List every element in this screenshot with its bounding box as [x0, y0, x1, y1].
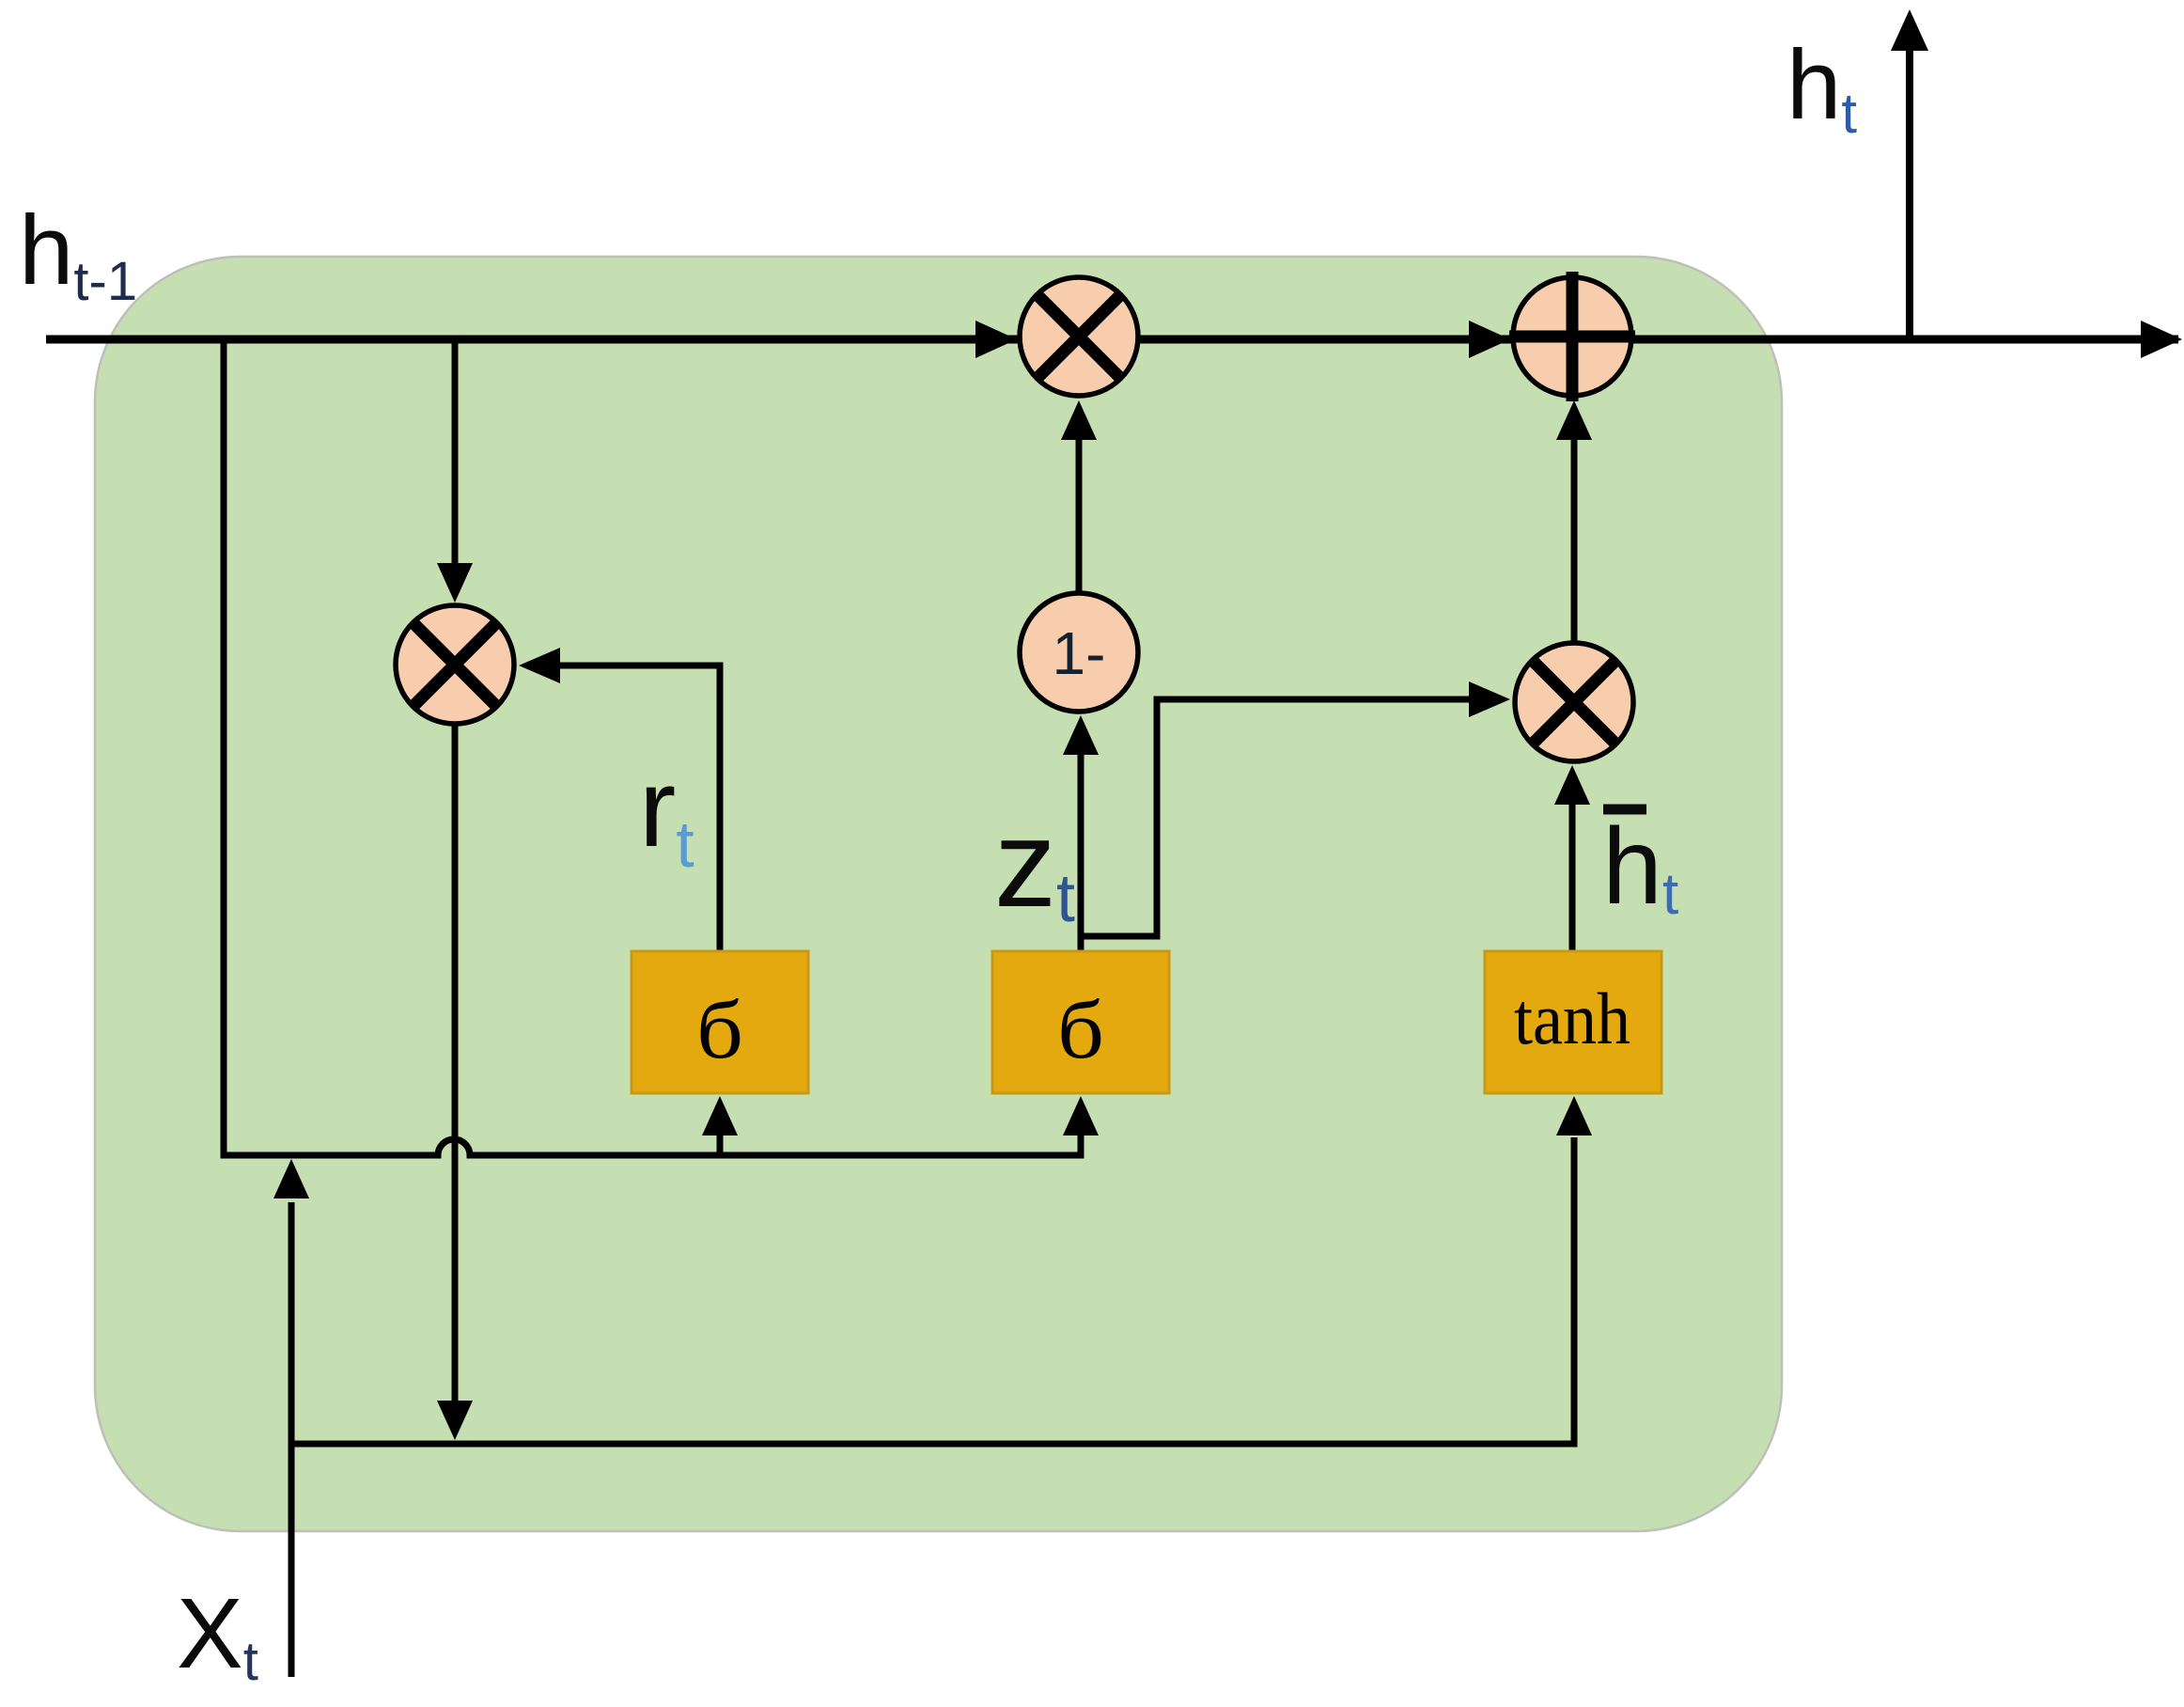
macron bar of h-tilde: [1603, 805, 1646, 815]
wire h(t-1) tap down into multiply node M2: [452, 336, 459, 564]
multiply node M1 (top, z*h(t-1)): [1020, 277, 1138, 396]
svg-text:б: б: [696, 985, 743, 1076]
arrowhead up into sigma2 box: [1063, 1096, 1099, 1135]
svg-text:ht: ht: [1786, 30, 1857, 145]
wire from 1- node up to multiply node M1: [1076, 440, 1083, 595]
wire from multiply node M2 down to lower bus: [452, 724, 459, 1402]
svg-text:б: б: [1057, 985, 1104, 1076]
svg-text:1-: 1-: [1053, 619, 1106, 687]
arrowhead up into tanh box: [1556, 1096, 1592, 1135]
arrowhead down into multiply node M2: [437, 563, 473, 603]
arrowhead at top of h(t) axis: [1891, 9, 1928, 51]
svg-text:ht-1: ht-1: [19, 196, 137, 312]
arrowhead up into 1- node: [1063, 715, 1099, 755]
wire from multiply node M3 up to add node: [1571, 440, 1578, 643]
arrowhead up into multiply node M1: [1061, 400, 1097, 440]
arrowhead left into multiply node M2 (r gate): [519, 648, 560, 683]
GRU cell body (green rounded rectangle): [95, 257, 1782, 1531]
svg-text:tanh: tanh: [1514, 978, 1630, 1059]
wire left tap from h(t-1) down to middle bus, with hop over x=484, to sigma2: [224, 336, 1081, 1155]
arrowhead right into multiply node M3: [1469, 681, 1510, 717]
wire r(t) feedback from sigma1 top to multiply node M2: [558, 666, 720, 951]
sigma2 box (update gate): [992, 951, 1169, 1093]
wire z(t) branch jog to multiply node M3: [1078, 699, 1469, 936]
tanh box: [1485, 951, 1661, 1093]
wire X(t) input vertical: [289, 1202, 295, 1677]
wire z(t) from sigma2 top up to 1- node: [1078, 755, 1084, 951]
arrowhead up into sigma1 box: [702, 1096, 738, 1135]
add node (plus circle): [1509, 272, 1635, 401]
wire stem of arrow into sigma1: [717, 1134, 724, 1155]
node 1- (one minus z): [1020, 593, 1138, 712]
arrowhead up into multiply node M3: [1554, 765, 1590, 805]
arrowhead up into add node: [1556, 400, 1592, 440]
wire h(t-1) main horizontal line: [46, 336, 2178, 344]
arrowhead at right end of h(t) line: [2141, 321, 2182, 358]
sigma1 box (reset gate): [632, 951, 808, 1093]
wire from tanh box top up to multiply node M3: [1569, 805, 1576, 951]
multiply node M3 (candidate multiply): [1515, 643, 1633, 761]
multiply node M2 (reset gate multiply): [396, 605, 514, 724]
arrowhead into add node (from M1): [1469, 321, 1510, 358]
svg-text:Xt: Xt: [177, 1578, 258, 1692]
arrowhead down onto lower bus (from M2): [437, 1401, 473, 1440]
wire h(t) vertical output axis: [1906, 51, 1913, 339]
arrowhead up from X(t) into middle bus: [273, 1159, 309, 1198]
arrowhead into multiply node M1 (from h(t-1)): [975, 321, 1017, 358]
wire lower X(t) bus to tanh box: [291, 1137, 1574, 1444]
